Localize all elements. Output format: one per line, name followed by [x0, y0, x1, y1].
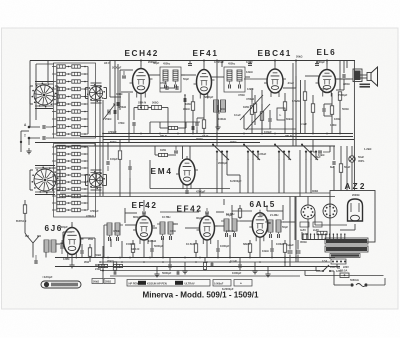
bus cap b [248, 63, 252, 65]
wire [21, 130, 29, 132]
antenna terminal A2 [28, 137, 31, 140]
wire [334, 284, 340, 286]
wire [199, 189, 201, 197]
Minerva logo stamp [41, 281, 81, 288]
wire [323, 104, 325, 108]
wire [351, 162, 353, 190]
cap mid right [332, 161, 334, 165]
wire [336, 89, 344, 91]
wire [125, 212, 137, 214]
bus cap c [315, 63, 319, 65]
wire [181, 74, 185, 76]
wire [151, 252, 153, 258]
wire [156, 267, 158, 272]
antenna terminal A1 [28, 126, 31, 129]
antenna cap [42, 125, 44, 129]
IF transformer T2 [224, 67, 245, 92]
EF41 cathode resistor [202, 120, 205, 129]
wire [30, 60, 355, 62]
FM IF transformer T3 [104, 223, 123, 241]
wire [360, 77, 367, 79]
stub cap c [210, 263, 212, 266]
ground 6J6 [71, 262, 73, 265]
wire [162, 238, 164, 258]
coil bank upper [52, 65, 88, 136]
wire [203, 61, 205, 67]
tube socket V1 [301, 205, 315, 219]
wire [239, 258, 241, 265]
wire [140, 94, 142, 108]
tube ECH42 envelope [130, 66, 153, 98]
tube socket V2 [323, 204, 337, 218]
wire [297, 255, 299, 263]
cap EBC41 [268, 118, 270, 122]
junction [295, 60, 297, 62]
wire [162, 107, 169, 109]
wire [160, 211, 199, 213]
rotary switch S1c [32, 167, 59, 194]
wire [300, 80, 302, 134]
wire [333, 271, 335, 285]
wire [295, 61, 297, 147]
junction [140, 107, 142, 109]
wire [129, 178, 131, 197]
tube EF42 a envelope [133, 213, 155, 244]
wire [346, 146, 348, 191]
wire [143, 240, 145, 258]
wire [351, 146, 353, 156]
junction [159, 133, 161, 135]
wire [102, 100, 104, 196]
wire [47, 61, 49, 84]
wire [81, 244, 83, 250]
EL6 cathode cap [322, 108, 324, 112]
output transformer [355, 71, 361, 81]
ground stub [156, 271, 158, 274]
voltage selector [331, 259, 346, 264]
wire [267, 210, 283, 212]
wire [87, 147, 89, 210]
EM4 target resistor [159, 153, 168, 156]
junction [102, 270, 104, 272]
bias res a [99, 264, 108, 267]
wire [217, 252, 219, 258]
wire [169, 258, 171, 265]
junction [121, 261, 123, 263]
wire [109, 61, 111, 98]
wire [181, 74, 196, 76]
FM input coil [44, 240, 49, 252]
coil bank frame upper [54, 63, 96, 138]
FM dipole antenna [25, 236, 41, 250]
junction [162, 257, 164, 259]
wire [244, 78, 267, 80]
wire [289, 197, 291, 250]
wire [339, 61, 341, 91]
wire [81, 237, 95, 239]
osc padder cap [183, 98, 185, 102]
res EBC41 d1 [253, 104, 256, 113]
wire [283, 221, 295, 223]
junction [295, 133, 297, 135]
tube EM4 envelope [176, 156, 198, 189]
legend strip [127, 280, 210, 287]
terminal comb above transformer [302, 234, 348, 240]
wire [240, 220, 252, 222]
wire [195, 253, 197, 258]
junction [229, 261, 231, 263]
power transformer windings [325, 238, 368, 258]
wire [267, 221, 269, 223]
wire [62, 232, 64, 244]
wire [315, 267, 317, 272]
EL6 cathode resistor [330, 106, 333, 115]
bus cap a [188, 63, 192, 65]
wire [148, 107, 152, 109]
switch S1a contact brackets [29, 86, 31, 104]
wire [119, 70, 121, 110]
junction [129, 257, 131, 259]
wire [304, 101, 306, 134]
wire [189, 61, 191, 64]
wire [107, 143, 109, 161]
wire [178, 127, 187, 129]
res fm4 [283, 244, 286, 253]
wire [239, 217, 241, 219]
wire [304, 80, 306, 92]
wire [340, 229, 355, 231]
cap below EM4 [185, 190, 187, 194]
volume pot [250, 106, 253, 115]
wire [168, 154, 177, 156]
wire [119, 140, 121, 151]
wire [314, 212, 316, 225]
junction [284, 261, 286, 263]
wire [271, 252, 273, 258]
wire [240, 95, 263, 120]
wire [307, 219, 309, 240]
wire [192, 122, 194, 126]
socket box a [300, 222, 309, 227]
cap mid [106, 161, 108, 165]
wire [251, 120, 253, 134]
wire [192, 95, 194, 102]
wire [124, 208, 126, 223]
coil bank lower [52, 145, 88, 211]
junction [216, 60, 218, 62]
junction [326, 60, 328, 62]
wire [28, 138, 30, 145]
coupling cap a [165, 86, 167, 90]
rotary switch S1a [32, 83, 57, 108]
rotary switch S1d [87, 171, 105, 189]
wire [316, 61, 318, 64]
wire [204, 258, 206, 263]
wire [330, 270, 334, 272]
wire [294, 197, 296, 241]
wire [229, 235, 231, 258]
wire [95, 266, 99, 268]
wire [307, 197, 309, 206]
wire [140, 61, 142, 67]
wire [103, 133, 353, 135]
wire [249, 253, 251, 258]
wire [216, 211, 224, 213]
wire [110, 275, 300, 277]
wire [121, 91, 133, 93]
wire [56, 147, 58, 210]
wire [117, 64, 119, 120]
wire [278, 159, 280, 193]
wire [35, 142, 260, 144]
wire [232, 210, 252, 212]
wire [223, 199, 225, 205]
wire [89, 244, 91, 248]
wire [203, 128, 205, 134]
junction [217, 257, 219, 259]
wire [134, 107, 138, 109]
wire [192, 130, 194, 134]
grid cap ECH42 [122, 75, 126, 77]
wire [110, 96, 121, 98]
wire [331, 93, 333, 106]
junction [243, 133, 245, 135]
ground strip b [254, 268, 256, 271]
wire [283, 87, 296, 89]
wire [252, 159, 254, 193]
mains plug [350, 283, 353, 286]
coupling cap b [175, 86, 177, 90]
wire [254, 262, 256, 268]
wire [254, 95, 256, 104]
wire [249, 240, 251, 244]
FM IF transformer T5 [221, 219, 240, 237]
junction [143, 261, 145, 263]
junction [216, 133, 218, 135]
cap fm3 [270, 248, 272, 252]
junction [184, 257, 186, 259]
wire [284, 111, 286, 134]
wire [132, 253, 134, 258]
wire [169, 268, 171, 271]
junction [229, 257, 231, 259]
cap 6J6 [80, 250, 82, 254]
ground terminal sym [28, 148, 30, 151]
wire [340, 146, 342, 164]
stub cap b [176, 271, 178, 274]
junction [107, 257, 109, 259]
wire [346, 61, 348, 69]
junction [249, 257, 251, 259]
FM IF transformer T6 [265, 220, 284, 238]
wire [55, 145, 335, 147]
wire [326, 61, 328, 67]
wire [24, 214, 26, 219]
wire [343, 61, 345, 74]
wire [89, 257, 91, 263]
wire [326, 61, 328, 65]
wire [204, 270, 206, 271]
wire [284, 93, 286, 102]
wire [323, 112, 325, 116]
wire [192, 111, 194, 134]
wire [269, 122, 271, 129]
res mid [118, 151, 121, 160]
wire [354, 224, 356, 230]
wire [45, 252, 47, 258]
junction [177, 133, 179, 135]
wire [99, 86, 101, 196]
junction [259, 261, 261, 263]
wire [24, 200, 26, 205]
tube 6AL5 envelope [249, 210, 270, 241]
AZ2 enclosure box [330, 191, 375, 243]
vertical resistor left [23, 205, 26, 214]
wire [32, 250, 34, 258]
wire [261, 104, 263, 112]
resistor under ECH42 b [152, 106, 162, 110]
wire [331, 115, 333, 134]
wire [292, 63, 294, 146]
wire [231, 205, 233, 219]
wire [149, 122, 151, 134]
wire [329, 197, 331, 205]
tube EL6 envelope [316, 67, 339, 97]
wire [261, 90, 263, 134]
wire [119, 160, 121, 197]
wire [261, 121, 263, 130]
wire [29, 61, 31, 128]
wire [244, 128, 296, 130]
wire [184, 95, 186, 134]
wire [333, 146, 335, 160]
cap mid low [191, 126, 193, 130]
res EBC41 d2 [260, 112, 263, 121]
res 470k right [339, 164, 342, 173]
wire [274, 61, 276, 67]
tuning cap arrow [103, 104, 115, 120]
wire [340, 78, 353, 80]
wire [226, 159, 228, 175]
rotary switch S1b [87, 84, 105, 102]
EF41 cathode cap [195, 122, 197, 126]
label box a [92, 279, 103, 284]
wire [329, 146, 331, 152]
choke [317, 231, 327, 234]
wire [24, 218, 26, 233]
wire [100, 261, 330, 263]
legend box 3 [234, 280, 252, 287]
wire [114, 61, 116, 134]
wire [254, 113, 256, 126]
wire [243, 115, 245, 129]
band box [277, 108, 285, 120]
wire [203, 95, 205, 120]
fuse [340, 273, 349, 278]
wire [20, 131, 22, 152]
res mid low [169, 126, 178, 129]
wire [329, 218, 331, 238]
wire [305, 159, 307, 193]
junction [284, 257, 286, 259]
wire [297, 240, 299, 250]
junction [199, 257, 201, 259]
wire [71, 222, 73, 227]
junction [271, 257, 273, 259]
scan noise [0, 0, 1, 1]
legend box 2 [213, 280, 231, 287]
wire [150, 121, 200, 123]
wire [196, 130, 198, 134]
wire [197, 117, 204, 119]
wire [177, 270, 179, 273]
wire [221, 61, 223, 68]
wire [128, 93, 130, 130]
wire [143, 200, 145, 206]
wire [150, 188, 230, 190]
junction [312, 133, 314, 135]
wire [211, 261, 213, 264]
wire [312, 140, 314, 153]
wire [80, 136, 353, 138]
electrolytic cap a [296, 250, 301, 252]
grid cap EF42b [205, 211, 209, 213]
FM IF transformer T4 [157, 222, 176, 240]
junction [99, 261, 101, 263]
filter cap right [318, 150, 322, 152]
junction [274, 60, 276, 62]
wire [247, 159, 249, 193]
switch S1b contact brackets [85, 88, 87, 99]
wire [360, 74, 367, 76]
terminal dot extra [20, 141, 22, 143]
wire [284, 240, 286, 244]
res fm1 [131, 244, 134, 253]
junction [140, 133, 142, 135]
cap50 ground [216, 110, 218, 114]
wire [160, 127, 169, 129]
grid cap EF42a [142, 211, 146, 213]
wire [167, 108, 169, 134]
wire [94, 238, 96, 258]
cap fm2 [216, 248, 218, 252]
resistor under ECH42 a [138, 106, 148, 110]
pilot lamp [349, 156, 355, 162]
tube 6J6 envelope [61, 225, 84, 259]
junction [102, 133, 104, 135]
wire [81, 254, 83, 258]
wire [284, 253, 286, 267]
wire [336, 264, 338, 268]
wire [299, 150, 301, 197]
wire [56, 67, 58, 135]
junction [326, 133, 328, 135]
wire [216, 159, 218, 193]
wire [211, 76, 224, 78]
res fm3 [248, 244, 251, 253]
res fm2 [194, 244, 197, 253]
wire [114, 270, 116, 273]
trimmer mid [128, 166, 130, 170]
osc coil [214, 100, 219, 112]
junction [339, 133, 341, 135]
wire [337, 267, 340, 269]
wire [295, 76, 297, 88]
wire [71, 255, 73, 262]
wire [340, 173, 342, 191]
wire [216, 143, 218, 146]
wire [149, 160, 151, 189]
